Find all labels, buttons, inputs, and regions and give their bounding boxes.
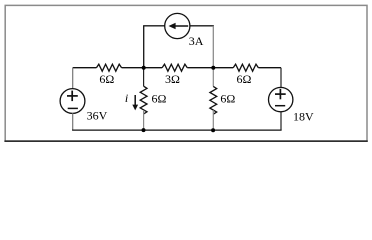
- svg-text:6Ω: 6Ω: [99, 72, 114, 86]
- resistor R3 6ohm horizontal: [233, 64, 258, 71]
- node C junction dot: [142, 128, 146, 132]
- svg-text:i: i: [125, 91, 128, 105]
- svg-text:6Ω: 6Ω: [220, 91, 235, 105]
- wire left branch upper: [72, 68, 74, 89]
- wire middle row: [73, 67, 281, 69]
- current source I1 3A: [165, 13, 190, 38]
- svg-text:36V: 36V: [87, 109, 108, 123]
- wire node B to resistor R5: [212, 68, 214, 87]
- svg-text:6Ω: 6Ω: [237, 72, 252, 86]
- wire resistor R4 to bottom: [143, 110, 145, 130]
- voltage source V1 36V: [60, 89, 85, 114]
- border frame: [4, 5, 367, 141]
- wire resistor R5 to bottom: [212, 110, 214, 130]
- resistor R1 6ohm horizontal: [96, 64, 121, 71]
- resistor R2 3ohm horizontal: [162, 64, 187, 71]
- wire right branch upper: [280, 68, 282, 88]
- wire top branch right vertical: [212, 26, 214, 68]
- wire bottom: [72, 129, 282, 131]
- node A junction dot: [142, 66, 146, 70]
- wire top branch horizontal: [143, 25, 214, 27]
- node B junction dot: [211, 66, 215, 70]
- svg-text:6Ω: 6Ω: [152, 91, 167, 105]
- current arrow i: [132, 95, 138, 110]
- svg-text:3Ω: 3Ω: [165, 72, 180, 86]
- wire right branch lower: [280, 112, 282, 130]
- resistor R5 6ohm vertical right: [210, 86, 217, 114]
- wire top branch left vertical: [143, 26, 145, 68]
- svg-text:3A: 3A: [189, 34, 204, 48]
- wire left branch lower: [72, 113, 74, 130]
- resistor R4 6ohm vertical left: [140, 86, 147, 114]
- node D junction dot: [211, 128, 215, 132]
- wire node A to resistor R4: [143, 68, 145, 87]
- svg-text:18V: 18V: [293, 110, 314, 124]
- voltage source V2 18V: [269, 87, 293, 111]
